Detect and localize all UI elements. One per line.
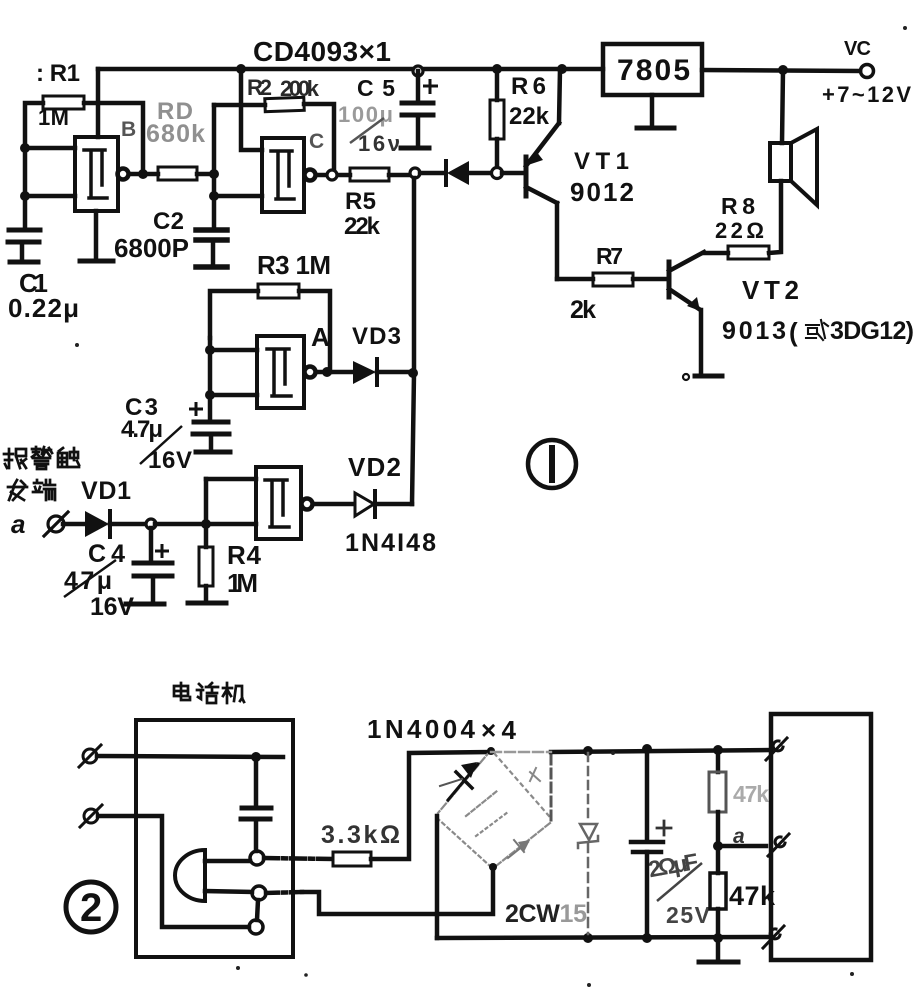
node rail junction VT1 emitter (557, 64, 567, 74)
svg-text:2: 2 (80, 886, 102, 930)
wire gate D input net (206, 477, 256, 482)
svg-text:200k: 200k (280, 76, 320, 101)
plus C5 (423, 79, 438, 94)
hook switch half-disc (175, 850, 205, 901)
svg-text:R2: R2 (247, 75, 272, 100)
svg-text:VD3: VD3 (352, 323, 401, 350)
wire R8 left lead (704, 251, 728, 256)
ground C1 (10, 260, 38, 265)
svg-text:16ν: 16ν (358, 131, 400, 156)
svg-text:9012: 9012 (570, 177, 634, 207)
node VD3 junction (408, 368, 418, 378)
svg-text:680k: 680k (146, 120, 205, 148)
resistor R1 (43, 96, 84, 109)
node gate C lower input (209, 191, 219, 201)
node VT1 base ring junction (492, 168, 503, 179)
wire hook arm lower (205, 891, 252, 892)
wire line1 into box (97, 756, 283, 757)
wire plus rail top (circuit 2) (551, 750, 771, 752)
svg-text:1N4004: 1N4004 (367, 714, 476, 744)
wire gate C output to R5 (316, 173, 350, 178)
op-amp gate C (CD4093 schmitt NAND) (262, 138, 316, 212)
slash C3 label (140, 426, 182, 464)
wire from rail corner down to gate B top (96, 69, 101, 137)
capacitor C1 (8, 230, 40, 259)
transistor VT1 9012 (502, 69, 560, 279)
regulator U1 7805 (603, 44, 702, 126)
wire gate B bottom pin (94, 211, 99, 259)
svg-text:C2: C2 (153, 208, 184, 235)
svg-text:3.3kΩ: 3.3kΩ (321, 821, 400, 849)
plus C4 (155, 544, 169, 558)
svg-text:: R1: : R1 (36, 60, 80, 87)
svg-text:C5: C5 (357, 75, 395, 101)
svg-text:CD4093×1: CD4093×1 (253, 36, 391, 67)
wire R7 to VT2 base (633, 277, 667, 282)
diode steering (to VT1 base) (420, 161, 493, 185)
terminal phone line 2 (80, 805, 102, 827)
wire dashed contact B out (266, 892, 302, 893)
wire minus rail bottom (circuit 2) (437, 937, 771, 938)
diode bridge D2 (faint, lower-right edge) (508, 840, 530, 858)
svg-text:R5: R5 (345, 188, 376, 215)
diode bridge D1 (dark, upper-left edge) (440, 762, 478, 800)
node gate B output junction (138, 169, 148, 179)
resistor R6 (490, 69, 504, 167)
wire gate A lower input (210, 393, 257, 398)
node bridge top vertex (487, 747, 495, 755)
wire R1 left lead (25, 103, 43, 227)
wire RD right lead (197, 172, 214, 177)
wire gate D input vertical (204, 479, 209, 524)
wire contact B to contact C (257, 900, 258, 920)
diode VD1 (85, 511, 147, 537)
cjk hua (话) phone label char2 (197, 683, 218, 703)
wire gate B upper input (25, 146, 75, 151)
svg-text:4.7μ: 4.7μ (121, 416, 163, 443)
TEXTS1 (80, 714, 776, 930)
bridge diamond sketch edges (437, 750, 550, 866)
wire R8 right lead to speaker (769, 181, 781, 253)
svg-text:1M: 1M (227, 568, 258, 598)
node hook junction (251, 752, 261, 762)
slash 20uF label (657, 863, 702, 901)
svg-text:VC: VC (844, 38, 871, 60)
svg-text:47k: 47k (733, 781, 769, 807)
ground R4 (188, 601, 226, 606)
capacitor 20uF electrolytic (631, 749, 663, 938)
wire R2 right lead down to gate C output (304, 104, 334, 171)
wire bridge left vertex down to minus rail (435, 816, 440, 938)
svg-text:7805: 7805 (617, 54, 690, 87)
wire bridge right vertex up to plus rail (550, 752, 553, 820)
svg-text:R8: R8 (721, 193, 755, 219)
node cap top (642, 744, 652, 754)
svg-text:VD1: VD1 (81, 477, 131, 505)
ground C4 (126, 602, 164, 607)
plus 20uF (657, 821, 671, 835)
svg-text:2CW15: 2CW15 (505, 900, 587, 928)
cjk duan (端) alarm label char5 (33, 480, 55, 500)
terminal contact B (252, 886, 266, 900)
node zener top (583, 746, 593, 756)
svg-text:×4: ×4 (481, 715, 517, 745)
wire 3.3k to bridge top (371, 752, 489, 859)
cjk huo (或) in 9013 note (806, 320, 828, 340)
slash C5 label (350, 118, 384, 143)
svg-text:VT2: VT2 (742, 275, 799, 305)
wire rail down to gate C upper input (241, 69, 262, 150)
wire right vertical net R5 to VD2 (412, 178, 414, 504)
wire VT1 collector to R7 (557, 277, 593, 282)
svg-text:1M: 1M (38, 105, 69, 130)
wire R1 right lead feedback to gate B output (84, 103, 143, 171)
svg-text:C: C (309, 130, 324, 153)
wire gate C lower input (214, 194, 262, 199)
svg-text:16V: 16V (90, 593, 134, 621)
node gate B input upper (20, 143, 30, 153)
node bridge bottom vertex (489, 863, 497, 871)
svg-text:R7: R7 (596, 243, 623, 269)
node rail junction to gate C input (236, 64, 246, 74)
terminal contact C (249, 920, 263, 934)
wire gate A output (316, 370, 352, 375)
resistor RD 680k (158, 167, 197, 180)
wire contact B to bridge bottom (302, 868, 493, 914)
svg-text:R4: R4 (227, 540, 262, 570)
svg-text:R3 1M: R3 1M (257, 250, 331, 280)
node gate A upper input (205, 345, 215, 355)
terminal phone line 1 (79, 745, 101, 767)
wire line2 into box to contact C (98, 816, 249, 927)
wire gate A upper input (210, 348, 257, 353)
phone box (136, 720, 293, 957)
terminal VC (861, 65, 874, 78)
wire dashed contact A to 3.3k (264, 858, 333, 859)
resistor 3.3k (333, 852, 371, 866)
plus C3 (189, 402, 203, 416)
wire terminal to VD1 (63, 522, 85, 527)
transistor VT2 9013 (669, 252, 704, 374)
cjk ji (机) phone label char3 (223, 683, 244, 703)
slash C4 label (64, 560, 116, 597)
diode VD3 (353, 359, 410, 385)
svg-text:(: ( (789, 317, 798, 347)
svg-text:+7~12V: +7~12V (822, 82, 911, 107)
terminal slash a tap (768, 834, 789, 856)
node RD / R2 / gate C net (209, 169, 219, 179)
wire gate B output to RD (129, 172, 158, 177)
terminal slash plus rail (766, 738, 787, 760)
wire vertical net x214 (R2 left to C2) (212, 105, 217, 226)
wire sketchy rail gap over bridge (491, 751, 551, 753)
node cap bottom (642, 933, 652, 943)
node gate C output ring junction (327, 170, 337, 180)
cjk jing (警) alarm label char2 (32, 447, 52, 469)
op-amp gate B (CD4093 schmitt NAND) (75, 137, 129, 211)
ground C2 (196, 264, 227, 270)
cjk chu (触) alarm label char3 (58, 448, 79, 467)
svg-text:a: a (11, 509, 25, 539)
node zener bottom (583, 933, 593, 943)
ground VT2 emitter (695, 374, 722, 379)
node gate A output junction (322, 367, 332, 377)
node gate A lower input (205, 390, 215, 400)
svg-text:6800P: 6800P (114, 233, 189, 263)
figure label 2 (circled) (66, 882, 116, 932)
svg-text:9013: 9013 (722, 317, 786, 345)
ground gate B (80, 259, 113, 264)
node R4 junction (201, 519, 211, 529)
resistor R5 (350, 168, 389, 181)
terminal a input (44, 512, 68, 536)
ground circuit 2 (699, 938, 738, 962)
wire gate D output (313, 502, 354, 507)
resistor 47k lower (710, 846, 726, 938)
svg-text:0.22μ: 0.22μ (8, 293, 79, 323)
capacitor C5 electrolytic (402, 71, 433, 146)
wire R5 right lead (389, 173, 411, 178)
node divider bottom (713, 933, 723, 943)
resistor R7 (593, 273, 633, 286)
ground C3 (196, 450, 230, 455)
capacitor C3 electrolytic (193, 422, 229, 450)
svg-text:22Ω: 22Ω (715, 218, 764, 243)
node gate B input lower (20, 191, 30, 201)
wire top power rail right segment (702, 70, 860, 71)
svg-text:VT1: VT1 (574, 148, 629, 175)
node R5 right ring junction (410, 168, 420, 178)
capacitor C2 (196, 230, 227, 264)
ground C5 (401, 146, 429, 151)
cjk dian (电) phone label char1 (174, 683, 190, 700)
resistor R3 (258, 284, 299, 298)
TEXTS2 (66, 714, 871, 962)
node rail junction speaker (778, 65, 788, 75)
svg-text:22k: 22k (509, 103, 550, 130)
zener diode 2CW (faint) (578, 753, 598, 934)
svg-text:100μ: 100μ (338, 102, 393, 127)
capacitor C4 electrolytic (134, 528, 172, 601)
ground 7805 (637, 126, 674, 131)
node rail junction C5 (ring) (413, 66, 423, 76)
wire top power rail left segment (98, 67, 603, 72)
svg-text:3DG12): 3DG12) (830, 317, 914, 345)
box circuit-1 load (771, 714, 871, 960)
op-amp gate A (CD4093 schmitt NAND) (257, 336, 316, 408)
cjk bao (报) alarm label char1 (4, 449, 26, 468)
node rail junction R6 (492, 64, 502, 74)
op-amp gate D (CD4093 schmitt NAND) (256, 467, 313, 539)
node divider top (713, 745, 723, 755)
diode VD2 (355, 491, 412, 517)
wire R3 right lead to gate A output (299, 291, 330, 372)
wire R3 left lead (210, 291, 258, 338)
terminal slash minus rail (763, 926, 784, 948)
svg-text:25V: 25V (666, 902, 711, 928)
wire gate B lower input (25, 194, 75, 199)
svg-text:R6: R6 (511, 73, 546, 100)
svg-text:A: A (311, 322, 330, 352)
figure label 1 (circled) (528, 440, 576, 488)
node divider mid (713, 841, 723, 851)
wire VD1 to gate D (155, 522, 256, 527)
cjk fa (发) alarm label char4 (8, 480, 27, 500)
resistor R4 (199, 524, 213, 601)
resistor R8 (728, 246, 769, 259)
capacitor phone internal (241, 757, 271, 851)
speaker (770, 70, 817, 205)
CKT2 (4, 320, 828, 703)
svg-text:VD2: VD2 (348, 452, 401, 482)
wire R2 left lead (214, 103, 265, 108)
resistor 47k upper (faint body) (709, 750, 726, 846)
wire divider tap to terminal a (718, 844, 766, 849)
diode bridge D3 (faint tick, upper-right) (530, 768, 540, 781)
wire gate A input net (208, 338, 213, 419)
svg-text:2k: 2k (570, 296, 596, 324)
svg-text:22k: 22k (344, 213, 381, 240)
resistor R2 (265, 97, 304, 111)
svg-text:C4: C4 (88, 540, 125, 568)
svg-text:1N4I48: 1N4I48 (345, 529, 436, 557)
node C4 ring junction (146, 519, 156, 529)
terminal contact A (hook) (250, 851, 264, 865)
svg-text:B: B (121, 118, 136, 141)
wire hook arm upper (205, 859, 250, 864)
